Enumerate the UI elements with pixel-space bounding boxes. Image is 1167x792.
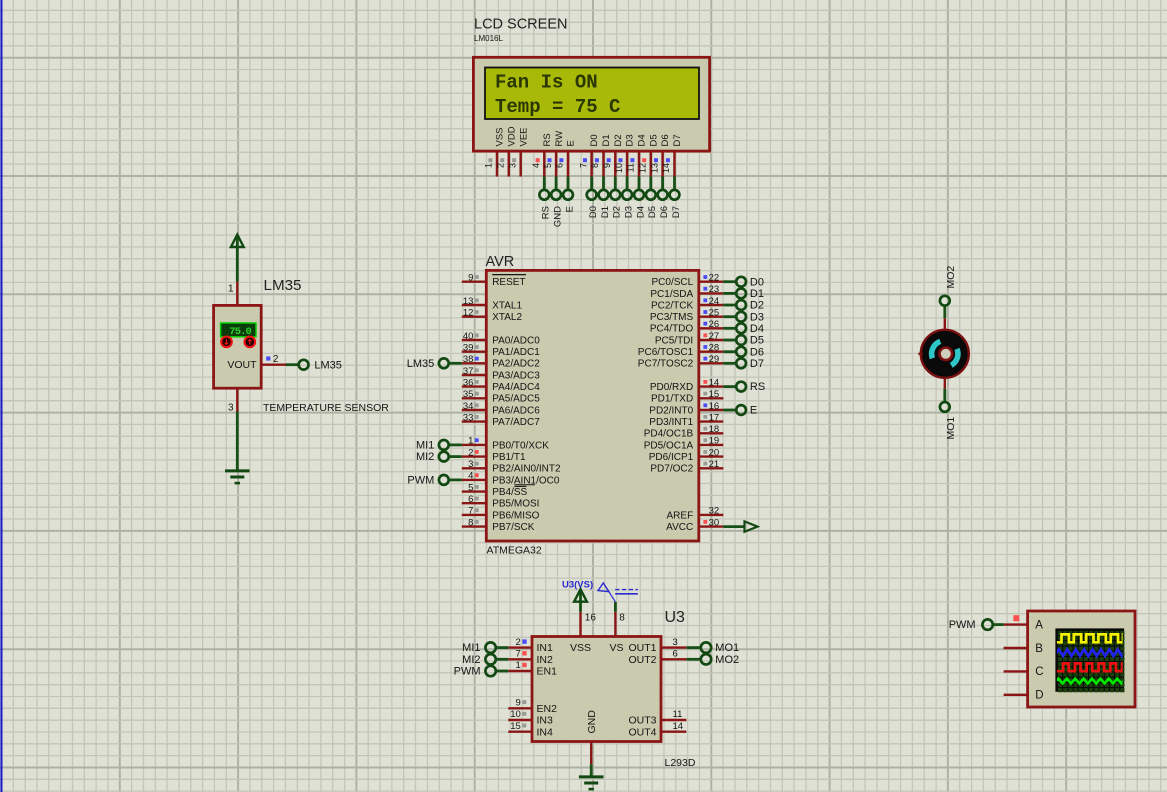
svg-text:29: 29 [709, 354, 720, 365]
svg-text:10: 10 [510, 709, 521, 720]
svg-text:PA3/ADC3: PA3/ADC3 [492, 370, 540, 381]
svg-text:IN3: IN3 [537, 715, 554, 727]
svg-text:LM35: LM35 [264, 277, 302, 294]
svg-text:27: 27 [709, 331, 720, 342]
svg-text:EN2: EN2 [537, 703, 558, 715]
svg-text:D6: D6 [659, 206, 670, 218]
svg-text:D1: D1 [600, 206, 611, 218]
svg-text:3: 3 [673, 637, 678, 648]
svg-text:PC4/TDO: PC4/TDO [650, 324, 694, 335]
svg-text:6: 6 [468, 494, 473, 505]
svg-text:MO2: MO2 [945, 266, 957, 289]
svg-text:21: 21 [709, 459, 720, 470]
svg-text:RW: RW [554, 131, 565, 147]
svg-text:LCD SCREEN: LCD SCREEN [474, 17, 567, 33]
svg-text:1: 1 [228, 284, 234, 295]
svg-text:RS: RS [750, 381, 765, 393]
svg-text:24: 24 [709, 296, 720, 307]
svg-text:28: 28 [709, 343, 720, 354]
svg-text:D2: D2 [612, 206, 623, 218]
svg-text:E: E [566, 140, 577, 146]
svg-text:PD3/INT1: PD3/INT1 [649, 417, 693, 428]
svg-text:D4: D4 [750, 323, 764, 335]
svg-text:D0: D0 [589, 134, 600, 146]
svg-text:8: 8 [619, 613, 625, 624]
svg-text:D2: D2 [613, 134, 624, 146]
svg-text:OUT1: OUT1 [628, 642, 656, 654]
svg-text:13: 13 [463, 296, 474, 307]
svg-text:IN4: IN4 [537, 726, 554, 738]
svg-text:1: 1 [516, 660, 521, 671]
svg-text:PD7/OC2: PD7/OC2 [650, 464, 693, 475]
svg-text:A: A [1035, 619, 1043, 631]
svg-text:15: 15 [709, 389, 720, 400]
svg-text:7: 7 [516, 649, 521, 660]
svg-text:RS: RS [542, 133, 553, 146]
svg-text:5: 5 [468, 482, 473, 493]
svg-text:1: 1 [468, 436, 473, 447]
svg-text:11: 11 [626, 163, 636, 172]
svg-text:15: 15 [510, 721, 521, 732]
svg-text:11: 11 [673, 709, 683, 720]
svg-text:U3: U3 [665, 609, 686, 626]
svg-text:GND: GND [553, 206, 564, 227]
svg-text:2: 2 [496, 163, 506, 168]
svg-text:34: 34 [463, 401, 474, 412]
svg-text:39: 39 [463, 343, 474, 354]
svg-text:30: 30 [709, 517, 720, 528]
svg-text:VSS: VSS [495, 127, 506, 146]
svg-text:PC2/TCK: PC2/TCK [651, 300, 694, 311]
svg-text:PD0/RXD: PD0/RXD [650, 382, 693, 393]
svg-text:PC6/TOSC1: PC6/TOSC1 [638, 347, 694, 358]
svg-text:6: 6 [555, 163, 565, 168]
svg-text:4: 4 [468, 471, 473, 482]
svg-text:D2: D2 [750, 300, 764, 312]
svg-text:PD5/OC1A: PD5/OC1A [644, 440, 694, 451]
svg-text:AVR: AVR [486, 254, 515, 270]
svg-text:PC3/TMS: PC3/TMS [650, 312, 694, 323]
svg-text:D: D [1035, 690, 1043, 702]
svg-text:IN2: IN2 [537, 654, 554, 666]
svg-text:D6: D6 [750, 346, 764, 358]
svg-text:D3: D3 [625, 134, 636, 146]
svg-text:TEMPERATURE SENSOR: TEMPERATURE SENSOR [263, 402, 389, 414]
svg-text:PA6/ADC6: PA6/ADC6 [492, 405, 540, 416]
svg-text:Fan Is ON: Fan Is ON [495, 72, 598, 94]
svg-text:XTAL1: XTAL1 [492, 300, 522, 311]
svg-text:8: 8 [590, 163, 600, 168]
svg-text:D7: D7 [671, 206, 682, 218]
svg-text:PB5/MOSI: PB5/MOSI [492, 499, 539, 510]
svg-text:2: 2 [516, 637, 521, 648]
svg-text:E: E [750, 405, 757, 417]
svg-text:LM35: LM35 [407, 358, 435, 370]
svg-text:PC7/TOSC2: PC7/TOSC2 [638, 359, 694, 370]
svg-text:14: 14 [709, 377, 720, 388]
svg-text:PA2/ADC2: PA2/ADC2 [492, 359, 540, 370]
svg-text:PD6/ICP1: PD6/ICP1 [649, 452, 694, 463]
svg-text:LM016L: LM016L [474, 34, 503, 43]
svg-text:12: 12 [463, 308, 474, 319]
svg-text:38: 38 [463, 354, 474, 365]
svg-text:3: 3 [507, 163, 517, 168]
svg-text:PA1/ADC1: PA1/ADC1 [492, 347, 540, 358]
svg-text:16: 16 [709, 401, 720, 412]
svg-text:OUT4: OUT4 [628, 726, 656, 738]
svg-text:OUT3: OUT3 [628, 715, 656, 727]
svg-text:5: 5 [543, 163, 553, 168]
svg-text:D4: D4 [637, 134, 648, 146]
svg-text:ATMEGA32: ATMEGA32 [487, 545, 542, 557]
svg-text:MO1: MO1 [945, 417, 957, 440]
svg-text:PB2/AIN0/INT2: PB2/AIN0/INT2 [492, 464, 561, 475]
svg-text:IN1: IN1 [537, 642, 554, 654]
svg-text:20: 20 [709, 447, 720, 458]
svg-text:AREF: AREF [667, 510, 694, 521]
svg-text:PWM: PWM [407, 475, 434, 487]
svg-text:10: 10 [614, 163, 624, 173]
svg-text:C: C [1035, 666, 1043, 678]
svg-text:D4: D4 [635, 206, 646, 218]
svg-text:PB4/SS: PB4/SS [492, 487, 527, 498]
svg-text:PA0/ADC0: PA0/ADC0 [492, 335, 540, 346]
svg-text:Temp = 75 C: Temp = 75 C [495, 96, 620, 118]
svg-text:MI2: MI2 [416, 451, 434, 463]
svg-text:PC0/SCL: PC0/SCL [652, 277, 694, 288]
svg-text:AVCC: AVCC [666, 522, 693, 533]
svg-text:23: 23 [709, 284, 720, 295]
svg-text:D0: D0 [750, 276, 764, 288]
svg-text:PC1/SDA: PC1/SDA [650, 289, 693, 300]
svg-text:3: 3 [468, 459, 473, 470]
svg-text:D5: D5 [750, 335, 764, 347]
svg-text:16: 16 [585, 613, 597, 624]
svg-text:D3: D3 [624, 206, 635, 218]
svg-text:6: 6 [673, 649, 678, 660]
svg-text:PB7/SCK: PB7/SCK [492, 522, 535, 533]
svg-text:14: 14 [661, 163, 671, 173]
svg-text:PD4/OC1B: PD4/OC1B [644, 429, 694, 440]
svg-text:MI2: MI2 [462, 654, 480, 666]
svg-text:MO1: MO1 [715, 642, 739, 654]
svg-text:PB0/T0/XCK: PB0/T0/XCK [492, 440, 549, 451]
svg-text:PC5/TDI: PC5/TDI [655, 335, 693, 346]
svg-text:D3: D3 [750, 311, 764, 323]
svg-text:9: 9 [468, 273, 473, 284]
svg-text:LM35: LM35 [314, 359, 342, 371]
svg-text:EN1: EN1 [537, 666, 558, 678]
svg-text:PA5/ADC5: PA5/ADC5 [492, 394, 540, 405]
svg-text:33: 33 [463, 412, 474, 423]
svg-text:PWM: PWM [454, 666, 481, 678]
svg-text:D7: D7 [750, 358, 764, 370]
svg-text:36: 36 [463, 377, 474, 388]
svg-text:PA7/ADC7: PA7/ADC7 [492, 417, 540, 428]
svg-text:MI1: MI1 [416, 440, 434, 452]
svg-text:35: 35 [463, 389, 474, 400]
svg-text:VSS: VSS [570, 642, 591, 654]
svg-text:7: 7 [578, 163, 588, 168]
svg-text:PB6/MISO: PB6/MISO [492, 510, 539, 521]
svg-text:2: 2 [468, 447, 473, 458]
svg-text:4: 4 [531, 163, 541, 168]
svg-text:D1: D1 [601, 134, 612, 146]
svg-text:L293D: L293D [665, 757, 696, 769]
svg-text:MI1: MI1 [462, 642, 480, 654]
svg-text:PD1/TXD: PD1/TXD [651, 394, 693, 405]
svg-text:D0: D0 [588, 206, 599, 218]
svg-text:17: 17 [709, 412, 720, 423]
svg-text:PA4/ADC4: PA4/ADC4 [492, 382, 540, 393]
svg-text:3: 3 [228, 403, 234, 414]
svg-text:B: B [1035, 643, 1043, 655]
svg-text:GND: GND [586, 710, 598, 734]
svg-text:7: 7 [468, 506, 473, 517]
svg-text:19: 19 [709, 436, 720, 447]
svg-text:22: 22 [709, 273, 720, 284]
svg-text:37: 37 [463, 366, 474, 377]
svg-text:E: E [564, 206, 575, 212]
svg-text:26: 26 [709, 319, 720, 330]
svg-text:OUT2: OUT2 [628, 654, 656, 666]
svg-text:9: 9 [516, 698, 521, 709]
svg-text:18: 18 [709, 424, 720, 435]
svg-text:RS: RS [541, 206, 552, 219]
svg-text:2: 2 [273, 354, 279, 365]
svg-text:9: 9 [602, 163, 612, 168]
svg-text:D5: D5 [647, 206, 658, 218]
svg-text:1: 1 [484, 163, 494, 168]
svg-text:14: 14 [673, 721, 684, 732]
svg-text:XTAL2: XTAL2 [492, 312, 522, 323]
svg-text:40: 40 [463, 331, 474, 342]
svg-text:13: 13 [649, 163, 659, 173]
svg-text:D6: D6 [660, 134, 671, 146]
svg-text:PB1/T1: PB1/T1 [492, 452, 526, 463]
svg-text:MO2: MO2 [715, 654, 739, 666]
svg-text:U3(VS): U3(VS) [562, 580, 593, 591]
svg-text:VOUT: VOUT [227, 359, 257, 371]
svg-text:D5: D5 [648, 134, 659, 146]
svg-text:D7: D7 [672, 134, 683, 146]
svg-text:RESET: RESET [492, 277, 525, 288]
svg-text:8: 8 [468, 517, 473, 528]
svg-text:PD2/INT0: PD2/INT0 [649, 405, 693, 416]
svg-text:25: 25 [709, 308, 720, 319]
svg-text:PWM: PWM [949, 619, 976, 631]
svg-text:VS: VS [609, 642, 623, 654]
svg-text:VDD: VDD [506, 126, 517, 146]
svg-text:12: 12 [638, 163, 648, 173]
svg-text:D1: D1 [750, 288, 764, 300]
svg-text:VEE: VEE [518, 127, 529, 146]
svg-text:32: 32 [709, 506, 720, 517]
